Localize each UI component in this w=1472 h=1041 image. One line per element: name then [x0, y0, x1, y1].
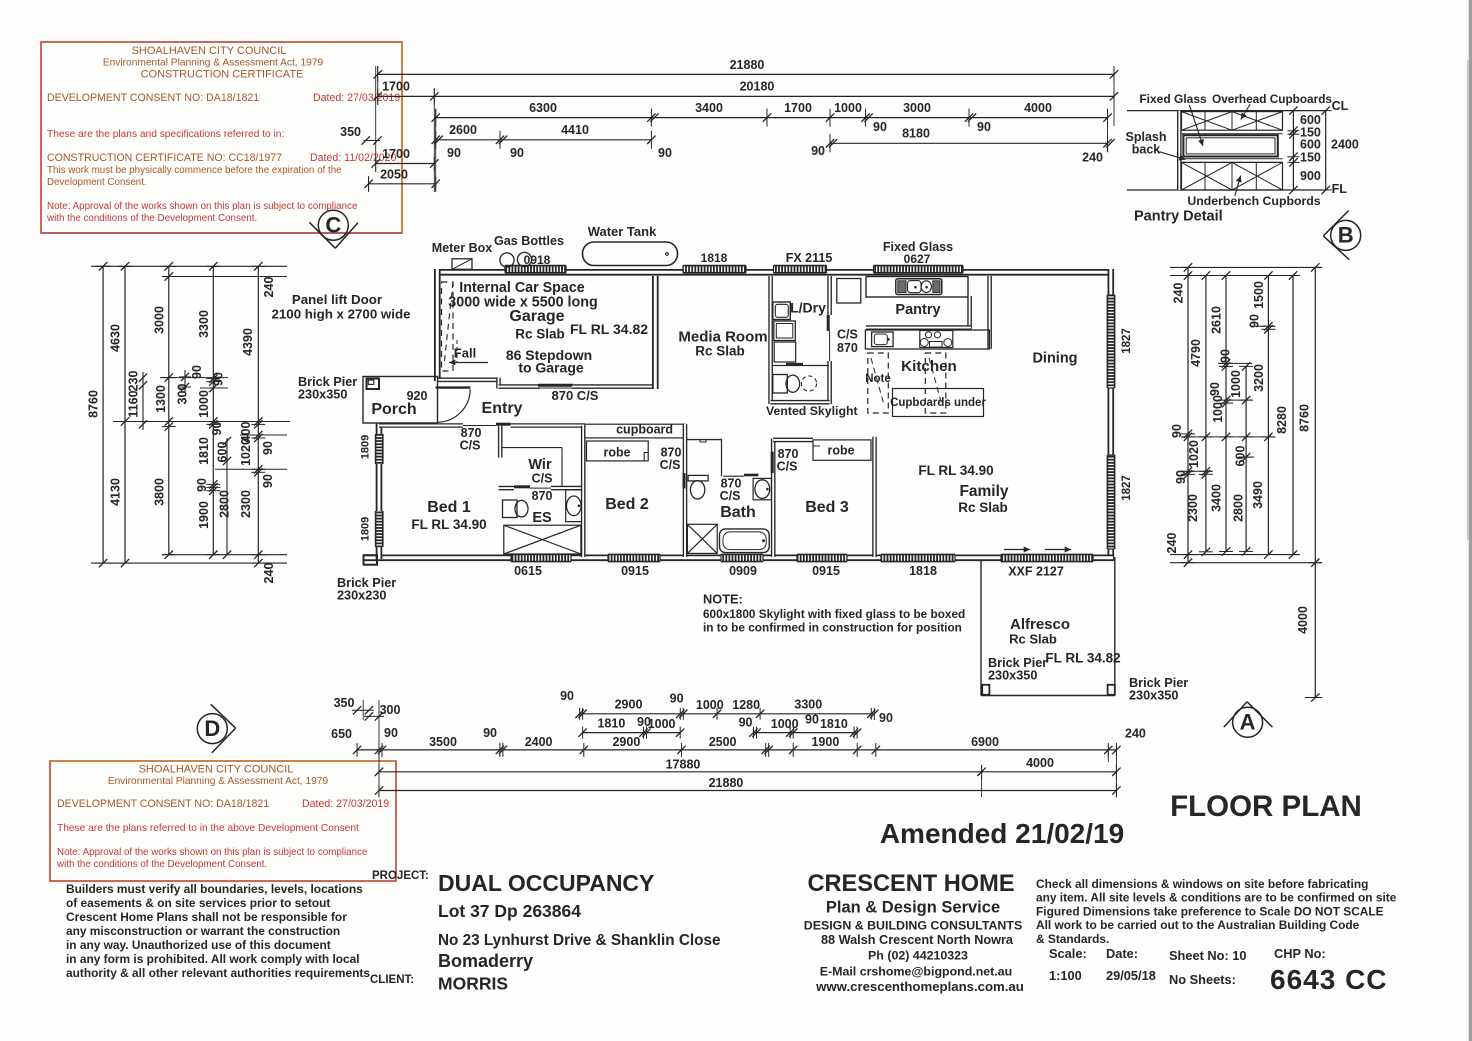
svg-text:1827: 1827 [1121, 328, 1133, 354]
section marker B [1331, 220, 1361, 250]
svg-text:CHP No:: CHP No: [1274, 946, 1326, 961]
dimension 2050 left stamp [369, 183, 436, 185]
wc toilet symbol [773, 375, 788, 394]
svg-text:650: 650 [331, 727, 352, 741]
pantry detail dim column [1292, 111, 1294, 190]
svg-text:XXF 2127: XXF 2127 [1008, 565, 1064, 579]
wall bed1 left [376, 424, 383, 560]
svg-text:2400: 2400 [1331, 138, 1359, 152]
es door leaf [514, 485, 530, 488]
svg-text:1000: 1000 [1211, 395, 1225, 423]
window bottom 1818 [881, 554, 955, 561]
pantry detail gap 150 lower [1182, 158, 1283, 160]
water tank symbol [583, 242, 678, 266]
svg-text:with the conditions of the Dev: with the conditions of the Development C… [46, 213, 257, 224]
bath toilet symbol [688, 475, 708, 481]
svg-text:These are the plans and specif: These are the plans and specifications r… [47, 129, 284, 140]
left dim sub 300 [184, 370, 186, 392]
svg-text:350: 350 [340, 125, 361, 139]
svg-text:3500: 3500 [429, 735, 457, 749]
wall garage bottom right segment [572, 384, 658, 389]
svg-text:90: 90 [1219, 349, 1233, 363]
svg-text:8180: 8180 [902, 127, 930, 141]
svg-text:robe: robe [603, 446, 630, 460]
svg-text:with the conditions of the Dev: with the conditions of the Development C… [56, 859, 267, 870]
cupboard box [585, 424, 685, 438]
dimension row 20180 [378, 95, 1114, 97]
svg-text:authority & all other relevant: authority & all other relevant authoriti… [66, 966, 370, 980]
pantry bench [866, 277, 968, 298]
svg-text:920: 920 [407, 389, 428, 403]
svg-text:DEVELOPMENT CONSENT NO: DA18/1: DEVELOPMENT CONSENT NO: DA18/1821 [57, 798, 269, 810]
svg-text:90: 90 [195, 478, 209, 492]
right dim vertical 4790 1020 2300 [1205, 276, 1207, 552]
window 1818 top wall [683, 266, 746, 273]
svg-text:90: 90 [805, 713, 819, 727]
svg-text:Vented Skylight: Vented Skylight [766, 404, 858, 418]
porch outline [363, 377, 438, 424]
svg-text:90: 90 [483, 726, 497, 740]
svg-text:These are the plans referred t: These are the plans referred to in the a… [57, 823, 359, 834]
garage door 870 leaf [538, 384, 573, 387]
svg-text:DEVELOPMENT CONSENT NO: DA18/1: DEVELOPMENT CONSENT NO: DA18/1821 [47, 92, 259, 104]
alfresco pier bottom-right [1108, 685, 1115, 695]
svg-text:88 Walsh Crescent North Nowra: 88 Walsh Crescent North Nowra [821, 933, 1014, 947]
svg-text:1160: 1160 [127, 390, 141, 417]
wall wir es divider right [551, 486, 581, 491]
bed2 door leaf [683, 473, 686, 488]
entry door leaf [436, 386, 471, 388]
wall garage bottom mid segment [499, 384, 541, 389]
svg-text:C/S: C/S [532, 472, 553, 486]
svg-text:in any form is prohibited. All: in any form is prohibited. All work comp… [66, 952, 360, 966]
svg-text:FL: FL [1332, 182, 1348, 196]
right dim horizontal connectors [1170, 266, 1322, 268]
bottom dim main row 3500 2400 2900 2500 1900 6900 [357, 749, 1116, 751]
svg-text:CONSTRUCTION CERTIFICATE NO: C: CONSTRUCTION CERTIFICATE NO: CC18/1977 [47, 152, 282, 164]
svg-text:90: 90 [210, 422, 224, 436]
svg-text:C/S: C/S [777, 460, 798, 474]
svg-text:cupboard: cupboard [616, 423, 673, 437]
pantry detail underbench cupboards [1182, 162, 1283, 190]
es door threshold [530, 487, 551, 489]
svg-text:2400: 2400 [525, 735, 553, 749]
right dim vertical 240 90 90 240 [1187, 267, 1189, 562]
svg-text:CL: CL [1332, 99, 1349, 113]
svg-text:Water Tank: Water Tank [588, 224, 657, 239]
section marker A [1233, 707, 1263, 737]
svg-text:in to be confirmed in construc: in to be confirmed in construction for p… [703, 621, 962, 635]
wir shelf line [502, 447, 563, 449]
left dim sub 600 2800 [226, 438, 228, 555]
svg-text:C/S: C/S [837, 328, 858, 342]
svg-text:600x1800 Skylight with fixed g: 600x1800 Skylight with fixed glass to be… [703, 607, 965, 621]
es basin [566, 490, 581, 522]
svg-text:870: 870 [837, 341, 858, 355]
left dim sub 230 1160 [142, 372, 144, 430]
svg-text:1000: 1000 [696, 698, 724, 712]
bed1 door leaf [496, 423, 511, 426]
svg-text:Pantry: Pantry [895, 302, 940, 318]
svg-text:90: 90 [873, 120, 887, 134]
svg-text:in any way. Unauthorized use o: in any way. Unauthorized use of this doc… [66, 938, 331, 952]
svg-text:Fixed Glass: Fixed Glass [1139, 92, 1207, 106]
svg-text:Note: Approval of the works s: Note: Approval of the works shown on thi… [57, 847, 368, 858]
porch brick pier symbol [367, 379, 380, 390]
svg-text:Rc Slab: Rc Slab [515, 327, 565, 342]
svg-text:0627: 0627 [904, 252, 931, 266]
section marker D [197, 714, 227, 744]
brick pier bottom left symbol [364, 555, 378, 565]
svg-text:1818: 1818 [701, 251, 728, 265]
svg-text:Dining: Dining [1032, 351, 1077, 367]
section marker C [318, 210, 348, 240]
wall bath bed3 [771, 439, 776, 557]
svg-text:No 23 Lynhurst Drive & Shankli: No 23 Lynhurst Drive & Shanklin Close [438, 932, 721, 949]
svg-text:3000: 3000 [903, 101, 931, 115]
left dim vertical 3300 1000 1810 1900 [212, 266, 214, 554]
svg-text:1810: 1810 [820, 717, 848, 731]
svg-text:8760: 8760 [1298, 404, 1312, 432]
scan edge right band [1469, 0, 1472, 1041]
svg-text:350: 350 [334, 696, 355, 710]
witness lines top block [375, 66, 377, 172]
svg-text:B: B [1338, 223, 1354, 248]
svg-text:FL RL 34.90: FL RL 34.90 [918, 463, 993, 478]
bed1 door threshold [463, 425, 496, 427]
right dim vertical 2610 1000 3400 [1225, 276, 1227, 552]
wall pantry bottom [866, 325, 971, 330]
svg-text:Rc Slab: Rc Slab [958, 500, 1008, 515]
svg-text:Porch: Porch [371, 401, 416, 418]
kitchen cooktop symbol [920, 331, 953, 348]
svg-text:2900: 2900 [612, 735, 640, 749]
left dim vertical 4390 400 1020 2300 [257, 266, 259, 563]
bed3 door leaf [771, 452, 774, 473]
svg-text:Ph (02) 44210323: Ph (02) 44210323 [868, 949, 968, 963]
right dim vertical 8760 4000 [1314, 267, 1316, 697]
svg-text:600: 600 [1300, 138, 1321, 152]
svg-text:www.crescenthomeplans.com.au: www.crescenthomeplans.com.au [815, 979, 1024, 994]
svg-text:600: 600 [1234, 446, 1248, 467]
svg-text:90: 90 [658, 146, 672, 160]
svg-text:Date:: Date: [1106, 946, 1138, 961]
svg-text:21880: 21880 [730, 58, 765, 72]
svg-text:Dated: 27/03/2019: Dated: 27/03/2019 [313, 92, 400, 104]
wall exterior top [434, 269, 1114, 276]
svg-text:0909: 0909 [729, 564, 757, 578]
svg-text:6900: 6900 [971, 735, 999, 749]
kitchen bench [865, 330, 989, 349]
svg-text:300: 300 [380, 703, 401, 717]
svg-text:150: 150 [1300, 151, 1321, 165]
ldry door leaf right wall [827, 315, 830, 331]
wall wir left [498, 426, 503, 458]
window 0627 fixed glass top wall [874, 266, 964, 273]
svg-text:Note: Approval of the works s: Note: Approval of the works shown on thi… [47, 201, 358, 212]
meter box symbol [452, 259, 472, 270]
extra ticks 90 pairs top [435, 136, 443, 144]
pantry detail fixed glass window [1183, 135, 1277, 156]
svg-text:90: 90 [212, 372, 226, 386]
svg-text:90: 90 [670, 692, 684, 706]
svg-text:1700: 1700 [382, 80, 410, 94]
svg-text:Note: Note [865, 373, 891, 385]
pantry detail gap 150 upper [1182, 133, 1283, 135]
window bottom 0915 first [608, 554, 660, 561]
svg-text:0615: 0615 [514, 564, 542, 578]
svg-text:any item. All site levels & co: any item. All site levels & conditions a… [1036, 891, 1397, 905]
svg-text:29/05/18: 29/05/18 [1106, 968, 1156, 983]
wall wir es divider left [499, 486, 514, 491]
svg-text:Bed 1: Bed 1 [427, 499, 471, 516]
svg-text:4000: 4000 [1296, 606, 1310, 634]
svg-text:1000: 1000 [648, 717, 676, 731]
wall es right [581, 426, 586, 558]
garage panel lift door dashed [442, 282, 454, 371]
svg-text:2050: 2050 [380, 168, 408, 182]
svg-text:Cupboards under: Cupboards under [890, 397, 986, 409]
bottom dim sub row upper 2900 1000 1280 3300 [580, 713, 875, 715]
svg-text:600: 600 [216, 442, 230, 463]
svg-text:1020: 1020 [1187, 440, 1201, 468]
svg-text:90: 90 [1174, 470, 1188, 484]
svg-text:2300: 2300 [1186, 494, 1200, 522]
svg-text:90: 90 [384, 726, 398, 740]
svg-text:3400: 3400 [1210, 484, 1224, 512]
svg-text:1900: 1900 [197, 501, 211, 529]
svg-text:3800: 3800 [152, 478, 166, 506]
svg-text:2900: 2900 [615, 698, 643, 712]
window 1827 right wall lower [1107, 455, 1114, 549]
svg-text:Environmental Planning & Asses: Environmental Planning & Assessment Act,… [103, 58, 324, 69]
svg-text:870 C/S: 870 C/S [552, 388, 599, 403]
svg-text:3000: 3000 [152, 306, 166, 334]
kitchen dashed box 2 [925, 353, 946, 413]
svg-text:0915: 0915 [812, 564, 840, 578]
left dim vertical 4630 4130 [124, 266, 126, 563]
svg-text:This work must be physically c: This work must be physically commence be… [47, 165, 342, 176]
svg-text:NOTE:: NOTE: [703, 592, 743, 607]
laundry bench symbol [774, 342, 796, 362]
svg-text:4000: 4000 [1024, 101, 1052, 115]
svg-text:Panel lift Door: Panel lift Door [292, 292, 382, 307]
svg-text:90: 90 [261, 474, 275, 488]
svg-text:of easements & on site service: of easements & on site services prior to… [66, 896, 330, 910]
dimension 1700 left stamp [376, 163, 435, 165]
bath nook door leaf [744, 474, 758, 477]
ldry wc partition [772, 365, 830, 367]
svg-text:1810: 1810 [197, 437, 211, 465]
svg-text:6643 CC: 6643 CC [1270, 964, 1388, 995]
es shower box [504, 525, 581, 554]
svg-text:90: 90 [1170, 424, 1184, 438]
dimension row 8180 [830, 142, 1108, 144]
bath tub symbol [720, 529, 770, 553]
dimension row 2600 4410 [436, 139, 652, 141]
svg-text:Overhead Cupboards: Overhead Cupboards [1212, 92, 1332, 106]
cupboards under box [893, 389, 984, 417]
svg-text:0918: 0918 [524, 253, 551, 267]
right dim vertical 8280 [1292, 276, 1294, 555]
washing machine symbol [774, 321, 796, 341]
svg-text:No Sheets:: No Sheets: [1169, 972, 1236, 987]
svg-text:1700: 1700 [784, 101, 812, 115]
svg-text:90: 90 [977, 120, 991, 134]
window FX 2115 top wall [774, 266, 827, 273]
svg-text:21880: 21880 [709, 776, 744, 790]
svg-text:870: 870 [532, 489, 553, 503]
svg-text:2300: 2300 [239, 490, 253, 518]
pantry sink double bowl [896, 279, 942, 295]
wall garage bottom step [496, 378, 501, 389]
svg-text:Sheet No: 10: Sheet No: 10 [1169, 948, 1247, 963]
svg-text:1818: 1818 [909, 564, 937, 578]
wall hall wir top [511, 423, 586, 428]
svg-text:Bed 2: Bed 2 [605, 496, 649, 513]
svg-text:2800: 2800 [1232, 494, 1246, 522]
wall kitchen right [987, 276, 992, 349]
pantry detail overhead cupboards [1182, 112, 1283, 131]
svg-text:Environmental Planning & Asses: Environmental Planning & Assessment Act,… [108, 776, 329, 787]
svg-text:Rc Slab: Rc Slab [695, 344, 745, 359]
svg-text:1809: 1809 [360, 435, 372, 459]
svg-text:4630: 4630 [109, 324, 123, 352]
kitchen note dashed box [868, 353, 889, 413]
svg-text:1020: 1020 [239, 438, 253, 466]
svg-text:230x230: 230x230 [337, 589, 386, 603]
svg-text:Scale:: Scale: [1049, 946, 1087, 961]
svg-text:1810: 1810 [597, 717, 625, 731]
svg-text:300: 300 [176, 384, 190, 405]
svg-text:PROJECT:: PROJECT: [372, 870, 429, 882]
svg-text:3400: 3400 [695, 101, 723, 115]
svg-text:90: 90 [261, 441, 275, 455]
window bottom 0915 second [797, 554, 847, 561]
svg-text:Development Consent.: Development Consent. [47, 177, 147, 188]
svg-text:8280: 8280 [1275, 406, 1289, 434]
svg-text:CONSTRUCTION CERTIFICATE: CONSTRUCTION CERTIFICATE [141, 69, 304, 81]
wall ldry left [768, 276, 773, 404]
dimension row 6300 3400 1700 1000 3000 4000 [436, 117, 1108, 119]
svg-text:90: 90 [811, 144, 825, 158]
wall bed3 top [773, 438, 813, 443]
svg-text:ES: ES [532, 510, 552, 526]
right dim vertical 1000 600 2800 [1245, 366, 1247, 551]
svg-text:3490: 3490 [1251, 481, 1265, 509]
window bottom XXF 2127 sliding door [1001, 554, 1093, 561]
svg-text:Bath: Bath [720, 504, 756, 521]
council stamp box top-left [41, 42, 402, 233]
svg-text:C/S: C/S [660, 458, 681, 472]
svg-text:240: 240 [1172, 283, 1186, 304]
wall ldry right lower [827, 361, 832, 404]
svg-text:230: 230 [127, 371, 141, 392]
svg-text:3200: 3200 [1252, 364, 1266, 392]
svg-text:240: 240 [262, 277, 276, 298]
svg-text:Bomaderry: Bomaderry [438, 951, 533, 971]
svg-text:240: 240 [1125, 727, 1146, 741]
svg-text:Pantry Detail: Pantry Detail [1134, 209, 1223, 225]
pantry detail CL line [1127, 110, 1326, 112]
pantry detail FL line [1127, 189, 1326, 191]
left dim vertical 3000 1300 3800 [168, 266, 170, 554]
svg-text:& Standards.: & Standards. [1036, 932, 1109, 946]
svg-text:17880: 17880 [666, 758, 701, 772]
wall bath top [687, 439, 722, 441]
svg-text:any misconstruction or warrant: any misconstruction or warrant the const… [66, 924, 340, 938]
garage door 870 threshold [540, 387, 572, 389]
svg-text:4790: 4790 [1189, 339, 1203, 367]
svg-text:D: D [204, 716, 220, 741]
svg-text:2100 high x 2700 wide: 2100 high x 2700 wide [272, 307, 411, 322]
svg-text:MORRIS: MORRIS [438, 974, 508, 994]
svg-text:back: back [1132, 143, 1161, 157]
svg-text:Garage: Garage [509, 308, 564, 325]
svg-text:1300: 1300 [154, 385, 168, 413]
svg-text:Entry: Entry [482, 400, 523, 417]
right dim vertical 1500 3200 3490 [1267, 276, 1269, 555]
svg-text:FL RL 34.82: FL RL 34.82 [1045, 651, 1120, 666]
entry door swing arc [437, 389, 470, 422]
svg-text:240: 240 [1165, 533, 1179, 554]
council stamp box bottom-left [50, 761, 396, 881]
svg-text:All work to be carried out to: All work to be carried out to the Austra… [1036, 918, 1360, 932]
svg-text:Lot 37 Dp 263864: Lot 37 Dp 263864 [438, 901, 581, 921]
svg-text:90: 90 [560, 689, 574, 703]
window bottom 0909 [721, 554, 763, 561]
svg-text:90: 90 [739, 716, 753, 730]
svg-text:Family: Family [959, 483, 1008, 500]
svg-text:Figured Dimensions take prefer: Figured Dimensions take preference to Sc… [1036, 904, 1384, 918]
wall ldry right upper [827, 276, 832, 315]
svg-text:3300: 3300 [197, 310, 211, 338]
svg-text:L/Dry: L/Dry [790, 300, 826, 316]
laundry tub symbol [773, 302, 791, 320]
svg-text:230x350: 230x350 [1129, 689, 1178, 703]
svg-text:Underbench Cupbords: Underbench Cupbords [1187, 194, 1320, 208]
wall garage left [434, 269, 441, 381]
svg-text:1000: 1000 [197, 390, 211, 418]
svg-text:4000: 4000 [1026, 756, 1054, 770]
svg-text:Rc Slab: Rc Slab [1009, 632, 1057, 647]
svg-text:90: 90 [510, 146, 524, 160]
window bed1 left wall upper 1809 [376, 434, 383, 464]
gas bottles symbol [500, 253, 514, 267]
svg-text:6300: 6300 [529, 101, 557, 115]
bottom dim sub row lower 1810 1000 1000 1810 [583, 732, 681, 734]
ldry wc door leaf [786, 363, 803, 366]
wall hall bed1 top [379, 423, 463, 428]
svg-text:Check all dimensions & windows: Check all dimensions & windows on site b… [1036, 877, 1368, 891]
dimension row 21880 top [378, 73, 1114, 75]
wall garage right [652, 276, 659, 389]
svg-text:Dated: 27/03/2019: Dated: 27/03/2019 [302, 798, 389, 810]
bed3 robe box [813, 440, 871, 460]
wall exterior bottom [363, 554, 1113, 561]
alfresco outline [980, 561, 982, 696]
svg-text:1280: 1280 [732, 698, 760, 712]
svg-text:FL RL 34.90: FL RL 34.90 [411, 517, 486, 532]
sliding door arrows [1004, 549, 1030, 551]
svg-text:robe: robe [827, 444, 854, 458]
svg-text:3300: 3300 [794, 698, 822, 712]
left dim vertical 8760 [102, 266, 104, 563]
svg-text:Alfresco: Alfresco [1010, 616, 1070, 633]
svg-text:FLOOR PLAN: FLOOR PLAN [1170, 790, 1362, 823]
svg-text:to Garage: to Garage [518, 360, 584, 376]
svg-text:1500: 1500 [1252, 281, 1266, 309]
